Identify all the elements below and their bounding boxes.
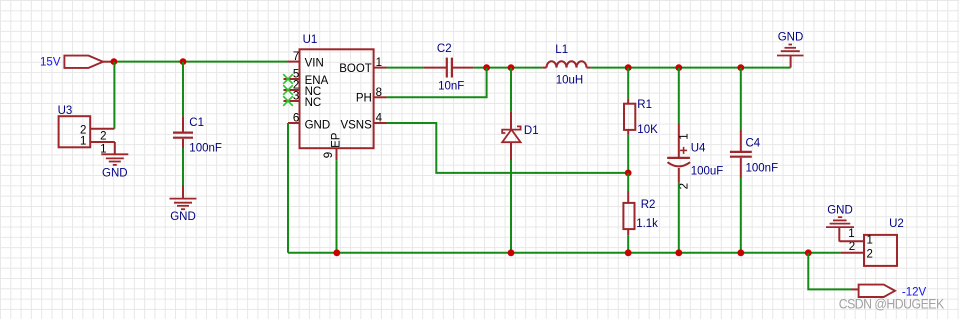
port 15V (40, 56, 103, 69)
svg-text:R2: R2 (641, 199, 656, 211)
connector U3 (58, 105, 107, 156)
svg-text:100uF: 100uF (691, 166, 724, 178)
svg-text:15V: 15V (40, 57, 61, 69)
no-connect X on pin 5 (283, 74, 293, 84)
wire down to -12V port (808, 253, 851, 290)
junction EP on ground rail (333, 249, 340, 256)
svg-text:GND: GND (827, 204, 853, 216)
wire rail down to R1 (627, 68, 629, 99)
svg-text:CSDN @HDUGEEK: CSDN @HDUGEEK (839, 297, 945, 312)
svg-text:2: 2 (100, 131, 106, 143)
U3 pin 1 stub (90, 141, 115, 143)
wire node B down to C1 (182, 62, 184, 117)
U1 pin 8 PH stub (356, 87, 387, 105)
svg-text:NC: NC (305, 97, 322, 109)
svg-text:1: 1 (848, 228, 854, 240)
svg-text:3: 3 (293, 90, 299, 102)
power GND at U2 (826, 204, 854, 241)
wire VSNS feedback (387, 123, 629, 173)
op-amp U1 body (300, 34, 374, 148)
svg-text:6: 6 (293, 112, 299, 124)
U1 pin 7 VIN stub (288, 51, 324, 70)
U1 pin 3 NC stub (284, 90, 322, 109)
svg-text:U1: U1 (303, 34, 318, 46)
node BOOT junction (483, 64, 490, 71)
connector U2 (848, 218, 904, 266)
wire stub to port (851, 288, 859, 290)
no-connect X on pin 2 (283, 85, 293, 95)
svg-text:1: 1 (679, 133, 691, 139)
svg-text:BOOT: BOOT (339, 63, 372, 75)
no-connect X on pin 3 (283, 96, 293, 106)
svg-text:C2: C2 (437, 43, 452, 55)
svg-text:GND: GND (778, 32, 804, 44)
svg-text:U4: U4 (691, 142, 706, 154)
inductor L1 (542, 44, 590, 87)
U2 pin 2 stub (841, 252, 864, 254)
wire rail down to C4 (740, 68, 742, 130)
U2 pin 1 stub (839, 240, 864, 242)
svg-text:1: 1 (80, 135, 86, 147)
svg-text:2: 2 (867, 248, 873, 260)
wire feedback node to R2 (627, 173, 629, 191)
svg-text:VSNS: VSNS (340, 119, 372, 131)
junction R2 bottom (625, 249, 632, 256)
node B junction (180, 58, 187, 65)
diode D1 (502, 111, 538, 160)
wire bottom ground rail (288, 252, 841, 254)
svg-text:100nF: 100nF (746, 163, 779, 175)
wire C2 to L1 (473, 67, 542, 69)
U1 pin 2 NC stub (284, 79, 322, 97)
svg-text:EP: EP (330, 132, 342, 148)
capacitor U4 polarized (667, 124, 723, 190)
junction C4 bottom (737, 249, 744, 256)
junction R1 tap (625, 64, 632, 71)
wire U1 pin 6 down to ground rail (287, 123, 289, 253)
svg-text:C1: C1 (189, 117, 204, 129)
svg-text:8: 8 (376, 87, 382, 99)
wire C4 to ground rail (740, 178, 742, 253)
svg-text:R1: R1 (637, 99, 652, 111)
node feedback junction (625, 170, 632, 177)
junction C4 tap (737, 64, 744, 71)
wire R2 to ground rail (627, 235, 629, 253)
svg-text:7: 7 (293, 51, 299, 63)
power GND top right (777, 32, 804, 68)
svg-text:1: 1 (867, 235, 873, 247)
svg-text:U3: U3 (58, 105, 73, 117)
U3 pin 2 stub (90, 128, 114, 130)
svg-text:VIN: VIN (305, 58, 324, 70)
U1 pin 4 VSNS stub (340, 112, 386, 131)
node A junction (111, 58, 118, 65)
junction U4 tap (675, 64, 682, 71)
svg-text:10nF: 10nF (438, 80, 464, 92)
U1 pin 5 ENA stub (284, 68, 329, 86)
wire D1 anode down to ground rail (510, 160, 512, 253)
svg-text:U2: U2 (889, 218, 904, 230)
wire L1 to GND stem (output rail) (591, 67, 791, 69)
svg-text:1: 1 (376, 57, 382, 69)
svg-text:GND: GND (102, 168, 128, 180)
svg-text:2: 2 (849, 241, 855, 253)
node PH junction (508, 64, 515, 71)
resistor R1 (624, 99, 658, 137)
svg-text:4: 4 (376, 112, 383, 124)
svg-text:1.1k: 1.1k (636, 218, 658, 230)
svg-text:PH: PH (356, 93, 372, 105)
svg-text:2: 2 (679, 183, 691, 189)
U1 pin 9 EP stub (323, 132, 342, 160)
junction U2 branch (805, 249, 812, 256)
wire PH pin 8 to node (387, 68, 487, 98)
svg-text:100nF: 100nF (189, 142, 222, 154)
junction D1 top (508, 249, 515, 256)
svg-text:L1: L1 (555, 44, 568, 56)
port -12V (859, 285, 927, 299)
wire rail down to U4 (678, 68, 680, 124)
wire port 15V to node A (103, 61, 114, 63)
svg-text:GND: GND (305, 119, 331, 131)
svg-text:10uH: 10uH (556, 75, 584, 87)
wire R1 to feedback node (627, 135, 629, 173)
junction U4 bottom (675, 249, 682, 256)
wire EP pin down to ground rail (336, 160, 338, 253)
svg-text:D1: D1 (524, 125, 539, 137)
wire PH node down to D1 (510, 68, 512, 112)
ground GND at U3 (101, 142, 128, 180)
U1 pin 6 GND stub (288, 112, 330, 131)
capacitor C2 (423, 43, 473, 93)
U1 pin 1 BOOT stub (339, 57, 386, 75)
wire BOOT to C2 (387, 67, 424, 69)
svg-text:10K: 10K (637, 124, 658, 136)
capacitor C4 (730, 129, 778, 178)
resistor R2 (623, 191, 658, 235)
wire C1 to ground (182, 148, 184, 186)
wire node A down to U3 pin 2 (113, 62, 115, 129)
wire U4 to ground rail (678, 183, 680, 253)
capacitor C1 (173, 116, 222, 154)
svg-text:GND: GND (170, 211, 196, 223)
svg-text:C4: C4 (746, 138, 761, 150)
wire main input rail (114, 61, 288, 63)
svg-text:9: 9 (323, 152, 335, 158)
ground GND at C1 (170, 186, 197, 223)
